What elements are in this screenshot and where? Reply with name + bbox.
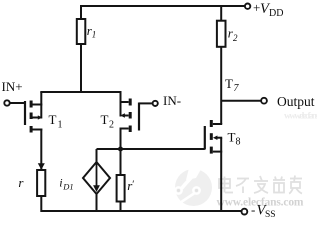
- svg-text:IN+: IN+: [2, 79, 23, 94]
- terminal IN-: [153, 101, 158, 106]
- wire r1 top: [80, 5, 82, 19]
- wire current source bottom: [96, 194, 98, 212]
- svg-text:T: T: [225, 76, 233, 91]
- terminal +VDD: [245, 3, 250, 8]
- resistor r1: [77, 19, 86, 44]
- svg-text:T: T: [101, 112, 109, 127]
- svg-text:T: T: [228, 129, 236, 144]
- wire r2 bottom to T8 drain: [220, 47, 222, 124]
- wire output tap: [221, 100, 261, 102]
- node junction dot: [118, 147, 123, 152]
- resistor r-prime: [117, 175, 125, 202]
- resistor r2: [217, 21, 226, 47]
- resistor r: [37, 170, 45, 196]
- svg-text:D1: D1: [62, 181, 73, 191]
- terminal Output: [261, 98, 267, 104]
- transistor T8: [204, 120, 213, 154]
- svg-text:IN-: IN-: [163, 93, 181, 108]
- svg-text:Output: Output: [277, 94, 315, 109]
- wire T2 drain vertical: [120, 92, 122, 117]
- wire T2 gate to IN-: [139, 102, 153, 104]
- wire r2 top: [220, 5, 222, 21]
- svg-text:2: 2: [109, 120, 114, 131]
- svg-text:8: 8: [236, 137, 241, 148]
- svg-text:T: T: [49, 112, 57, 127]
- svg-text:SS: SS: [265, 210, 276, 218]
- transistor T1: [24, 101, 33, 133]
- svg-text:1: 1: [92, 30, 97, 40]
- wire r-prime top: [120, 149, 122, 175]
- svg-text:2: 2: [233, 33, 238, 43]
- watermark logo: [175, 164, 212, 206]
- wire top rail: [80, 5, 245, 7]
- wire r-prime bottom: [120, 202, 122, 213]
- svg-text:DD: DD: [269, 8, 283, 19]
- svg-text:-: -: [251, 202, 255, 217]
- svg-text:i: i: [59, 175, 62, 189]
- wire bottom rail: [41, 210, 241, 212]
- svg-text:′: ′: [132, 179, 134, 190]
- wire T2 source vertical: [120, 128, 122, 150]
- wire r bottom: [40, 196, 42, 212]
- terminal IN+: [4, 100, 9, 105]
- watermark chinese text 电子发烧友 (approximated strokes): [219, 176, 302, 194]
- wire diff pair top: [40, 91, 121, 93]
- svg-text:1: 1: [58, 120, 63, 131]
- current source iD1: [83, 162, 110, 194]
- svg-text:www.elecfans.c: www.elecfans.c: [284, 112, 317, 122]
- wire T1 source down to r: [40, 129, 42, 171]
- transistor T2: [129, 99, 140, 133]
- wire T1 gate from IN+: [10, 102, 24, 104]
- terminal -VSS: [242, 209, 248, 215]
- wire T8 source vertical: [220, 138, 222, 212]
- wire current source top: [96, 149, 98, 162]
- wire middle horizontal node row: [97, 148, 205, 150]
- wire T1 drain vertical: [40, 92, 42, 119]
- wire r1 bottom: [80, 44, 82, 93]
- arrow on T1 source wire: [38, 163, 45, 170]
